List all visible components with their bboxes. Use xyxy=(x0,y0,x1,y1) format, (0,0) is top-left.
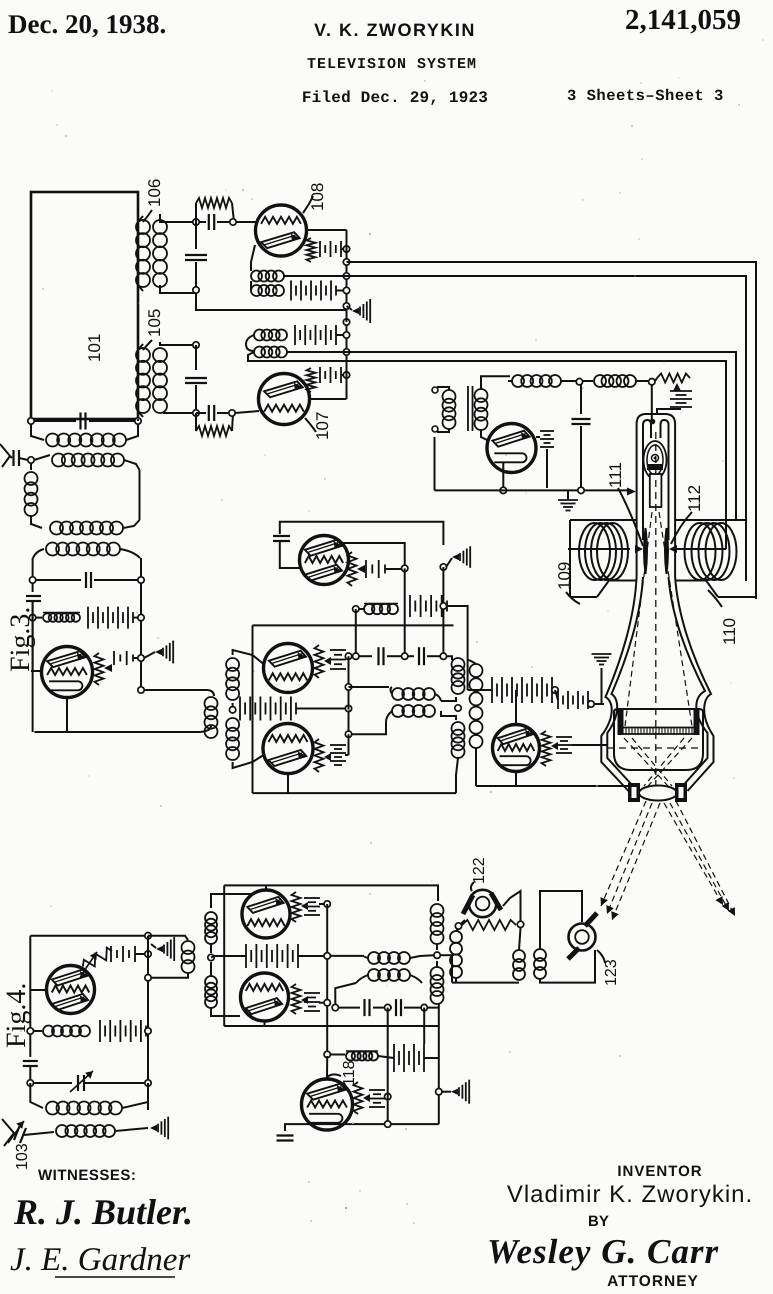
node T3 battery right xyxy=(138,655,144,661)
Te plate resistor xyxy=(292,892,301,922)
label 108 leader xyxy=(303,196,313,213)
node battery B xyxy=(343,287,349,293)
wire mb battery right xyxy=(424,1057,439,1059)
label 107 leader xyxy=(305,418,316,432)
mb output column bottom xyxy=(431,967,444,980)
choke row battery xyxy=(409,595,411,617)
svg-text:111: 111 xyxy=(606,462,625,488)
122 bottom wire xyxy=(456,978,519,983)
rcv grid battery xyxy=(540,430,554,432)
midblock frame xyxy=(253,624,454,626)
wire windings right to column xyxy=(441,697,456,701)
midbottom bias battery xyxy=(211,956,214,958)
Tf arrow xyxy=(301,996,308,1004)
wire 105 primary ends xyxy=(138,344,143,350)
wire Tb batt to node xyxy=(345,655,349,657)
node fig4 primary return xyxy=(145,975,151,981)
mid transformer top winding xyxy=(392,688,404,700)
coupling center tap xyxy=(208,954,214,960)
rcv rail left bend xyxy=(434,437,436,490)
input transformer secondary bottom half xyxy=(226,718,239,731)
crt cathode circle xyxy=(652,455,659,462)
Td cathode down xyxy=(515,772,517,787)
svg-text:109: 109 xyxy=(555,562,574,590)
dashed rays right fan xyxy=(664,803,723,905)
label 118 leader xyxy=(326,1074,341,1078)
node stage2 right top xyxy=(138,577,144,583)
crt gun inner ellipse xyxy=(647,445,663,475)
wire row2-row3 right vertical xyxy=(139,470,141,520)
wire coil A to bus xyxy=(284,275,347,277)
node ground top xyxy=(343,303,349,309)
wire 105 secondary top xyxy=(160,342,196,345)
123 plate upper xyxy=(585,913,597,926)
mb transformer top winding xyxy=(330,955,364,957)
target side support left xyxy=(618,708,624,735)
coupling primary bottom xyxy=(151,973,188,978)
wire Te out xyxy=(319,903,324,905)
fig4 top rail xyxy=(30,935,145,937)
deflection coil 109 xyxy=(579,523,610,580)
crt axis dashed xyxy=(655,432,657,786)
bus wire C xyxy=(287,352,736,520)
svg-text:112: 112 xyxy=(685,485,704,512)
rcv coil row 1 xyxy=(512,375,524,387)
yoke step left xyxy=(597,581,609,598)
tube Tb xyxy=(264,644,313,693)
grid capacitor of 108 xyxy=(208,214,210,230)
node battery 107 xyxy=(343,332,349,338)
mb bottom rail xyxy=(308,1123,439,1125)
Td arrow xyxy=(551,742,558,750)
rcv pot arrow xyxy=(673,383,681,391)
wire bias to gun top xyxy=(657,409,681,414)
rf row4 next stage xyxy=(33,549,44,558)
fig4 series capacitor xyxy=(23,1060,38,1062)
node mb cap row left xyxy=(332,1004,338,1010)
choke row: node left xyxy=(353,606,359,612)
T4 grid wire xyxy=(30,989,46,991)
fig4 ground 2 xyxy=(150,1125,157,1131)
Tb plate resistor xyxy=(315,645,324,678)
mb transformer bottom winding xyxy=(368,969,380,981)
block 101 xyxy=(31,192,138,419)
lens bracket left xyxy=(628,783,640,802)
crt gun crossbar xyxy=(647,464,663,470)
crt bell right outer xyxy=(675,577,713,791)
wire cap row to column xyxy=(427,1004,439,1008)
node winding bottom left xyxy=(345,731,351,737)
mid transformer bottom winding xyxy=(392,705,404,717)
wire yoke left to left plate xyxy=(568,548,630,550)
label 109 leader xyxy=(566,592,580,604)
tank coil row1 xyxy=(31,424,44,440)
output chain battery small xyxy=(557,691,559,709)
crt bell left outer xyxy=(601,577,636,791)
wire bottom winding left xyxy=(356,975,368,983)
tube 107 xyxy=(259,374,310,425)
Tf cathode stub xyxy=(264,1021,266,1026)
svg-text:110: 110 xyxy=(720,618,739,645)
fig4 right vertical xyxy=(147,936,149,1110)
wire T3 output right xyxy=(144,689,208,691)
node mb cap right xyxy=(421,1004,427,1010)
tube T3 detector xyxy=(42,647,93,698)
crt inner chamber xyxy=(614,709,703,770)
coupling transformer secondary top xyxy=(205,912,217,924)
fig4 to midbottom coupling wire xyxy=(148,936,188,940)
yoke frame top left xyxy=(570,519,637,521)
choke coil mid xyxy=(359,608,364,610)
svg-text:Vladimir K. Zworykin.: Vladimir K. Zworykin. xyxy=(507,1181,753,1208)
wire cap to Ta xyxy=(280,541,300,568)
122 right coil xyxy=(519,928,521,950)
node T4 batt xyxy=(145,951,151,957)
fig4 big coil row xyxy=(30,1083,43,1108)
wire to tube 108 xyxy=(236,221,256,223)
svg-text:TELEVISION SYSTEM: TELEVISION SYSTEM xyxy=(307,56,477,73)
fig4 tube T4 xyxy=(47,966,95,1014)
stage2 frame right vertical xyxy=(140,558,142,690)
node rcv cathode xyxy=(500,487,506,493)
118 grid stub xyxy=(326,1056,328,1080)
Td plate resistor xyxy=(542,731,551,766)
node stage2 left top xyxy=(29,577,35,583)
coil row battery 107 xyxy=(254,330,265,341)
T3 plate resistor xyxy=(95,653,104,685)
122 plate left xyxy=(463,895,473,914)
ground below rcv xyxy=(567,490,569,499)
fig4 left vertical xyxy=(29,936,31,1057)
coupling capacitor 107 xyxy=(195,345,197,370)
svg-text:2,141,059: 2,141,059 xyxy=(625,4,741,36)
svg-text:101: 101 xyxy=(85,334,104,362)
grid leak resistor 108 xyxy=(307,238,316,262)
transformer 105 primary winding xyxy=(136,348,150,362)
fig4 variable capacitor row xyxy=(27,1080,33,1086)
antenna 103 arrow xyxy=(8,1121,24,1143)
tube Te xyxy=(242,890,290,938)
node cap branch xyxy=(578,487,584,493)
transformer 106 secondary winding xyxy=(153,220,167,234)
wire grid Tc xyxy=(233,755,264,768)
dashed horizontal in chamber xyxy=(607,747,703,749)
wire Tc batt to vertical xyxy=(345,754,349,756)
feedback coil A 108 xyxy=(251,245,255,271)
node 107 grid left xyxy=(193,410,199,416)
label 123 leader xyxy=(597,950,605,963)
svg-text:Fig.4.: Fig.4. xyxy=(1,983,32,1048)
vertical 424 link xyxy=(423,1008,425,1044)
vertical 348 down xyxy=(348,656,350,734)
svg-text:107: 107 xyxy=(313,412,332,440)
tube 118 xyxy=(302,1079,353,1130)
receiver transformer secondary xyxy=(475,389,488,402)
ground fig3 xyxy=(155,649,162,655)
receiver secondary top to coil row xyxy=(481,376,510,389)
grid resistor of 108 xyxy=(195,203,197,222)
118 cathode capacitor xyxy=(285,1124,308,1131)
photocell 122 xyxy=(469,890,496,917)
label 106 leader xyxy=(143,210,152,222)
123 left coil xyxy=(534,949,546,961)
wire secondary top bend xyxy=(468,660,476,664)
label 111 leader xyxy=(618,488,643,546)
label 105 leader xyxy=(143,340,152,350)
midblock top rail xyxy=(280,522,444,545)
mb choke row xyxy=(324,1051,330,1057)
wire T3 cathode down xyxy=(66,698,68,733)
svg-text:WITNESSES:: WITNESSES: xyxy=(38,1167,136,1184)
left vertical to rail xyxy=(32,615,34,640)
118 plate resistor xyxy=(354,1082,363,1114)
node mb cap mid xyxy=(385,1004,391,1010)
mb cap row c2 xyxy=(391,1007,392,1009)
wire choke row to output transformer xyxy=(447,606,468,660)
battery stage2 xyxy=(87,607,89,629)
interstage primary coil xyxy=(208,690,214,696)
wire node to 122 frame xyxy=(440,954,452,956)
crt gun outer ellipse xyxy=(644,441,667,479)
crt neck inner wall right xyxy=(661,420,669,540)
Te plate stub xyxy=(265,885,267,890)
receiver primary leads xyxy=(437,387,449,390)
fig4 ground 1 xyxy=(151,944,156,948)
wire top winding right xyxy=(410,955,434,958)
cap row c1 xyxy=(359,655,372,657)
tank capacitor xyxy=(34,420,76,422)
122 resistor xyxy=(462,920,516,930)
fig4 coil battery row xyxy=(27,1028,33,1034)
node coil 107 xyxy=(343,349,349,355)
Tc arrow xyxy=(324,753,331,761)
vertical 355 down xyxy=(355,609,357,656)
Te arrow xyxy=(301,902,308,910)
rcv capacitor branch xyxy=(580,384,582,414)
node mb column center xyxy=(434,952,440,958)
rcv center wire to gun xyxy=(651,384,653,421)
target side support right xyxy=(694,708,700,735)
wire to ground fig3 xyxy=(144,652,155,658)
tube Tf xyxy=(241,973,289,1021)
yoke step right xyxy=(706,581,718,598)
Ta arrow xyxy=(357,565,365,573)
node Ta right xyxy=(402,565,408,571)
grid leak resistor 107 xyxy=(307,368,316,392)
tube Td grid stub xyxy=(515,690,517,724)
svg-text:122: 122 xyxy=(471,857,488,884)
bulb bottom wire xyxy=(476,785,629,787)
grid capacitor 107 xyxy=(208,405,210,421)
bus wire B inner xyxy=(347,276,747,581)
node antenna xyxy=(28,457,34,463)
T3 arrow xyxy=(104,664,112,672)
wire cap row to coil column xyxy=(446,656,452,660)
wire bus D to right plate xyxy=(675,548,726,550)
deflection coil 110 xyxy=(685,523,716,580)
node midrail right top xyxy=(440,564,446,570)
frame right to column bottom xyxy=(456,758,458,793)
122 right lead xyxy=(503,891,521,921)
wire to tube 107 xyxy=(235,411,259,413)
wire down to ground rail xyxy=(196,293,345,310)
coupling transformer primary xyxy=(182,941,195,954)
tube Tc xyxy=(263,724,313,774)
node bus A xyxy=(343,259,349,265)
receiver transformer primary xyxy=(443,390,456,403)
Tc plate resistor xyxy=(315,739,324,772)
yoke frame bottom right outer xyxy=(718,596,756,598)
Tb arrow xyxy=(324,657,331,665)
T4 pot arrow xyxy=(82,952,97,974)
Te battery stack xyxy=(304,897,320,899)
svg-text:ATTORNEY: ATTORNEY xyxy=(607,1273,699,1290)
label 110 leader xyxy=(708,590,722,607)
secondary bottom down xyxy=(475,748,477,786)
plate vertical 107 xyxy=(346,322,348,399)
wire Td to bulb xyxy=(572,744,607,746)
vertical 327 down xyxy=(326,904,328,1055)
dashed beam lines in cone xyxy=(625,512,652,726)
wire coil107 to bus D xyxy=(248,352,290,361)
yoke frame bottom right inner xyxy=(675,580,706,582)
svg-text:103: 103 xyxy=(14,1143,31,1170)
tube 108 plate wire right xyxy=(307,229,347,231)
node tank left xyxy=(28,418,34,424)
crt lens xyxy=(639,786,677,801)
deflector plate right xyxy=(665,528,668,574)
Ta cathode resistor xyxy=(348,552,357,586)
node bias 108 xyxy=(343,246,349,252)
node tank right xyxy=(135,418,141,424)
feedback coil 107 xyxy=(246,335,254,351)
node top 107 xyxy=(343,319,349,325)
output transformer secondary xyxy=(470,664,483,677)
input transformer secondary top half xyxy=(226,658,239,671)
node cap row mid xyxy=(402,653,408,659)
123 plate lower xyxy=(568,948,579,959)
yoke frame bottom left inner xyxy=(609,580,637,582)
Tf plate resistor xyxy=(292,984,301,1014)
output chain battery big xyxy=(491,677,493,703)
label 112 leader xyxy=(671,512,692,544)
crt neck inner wall left xyxy=(643,420,651,540)
node cap row right xyxy=(440,653,446,659)
choke coil stage2 xyxy=(35,617,42,619)
rcv cathode lead xyxy=(502,462,504,487)
crt gun cylinder xyxy=(650,474,662,507)
antenna top xyxy=(0,444,10,467)
wire block101 left edge down xyxy=(30,419,32,421)
tube Ta xyxy=(300,536,349,585)
node bulb wall top xyxy=(588,701,594,707)
T4 battery xyxy=(110,946,112,962)
tube 108 xyxy=(256,205,307,256)
node choke right xyxy=(440,603,446,609)
svg-text:Wesley G. Carr: Wesley G. Carr xyxy=(487,1232,719,1271)
output transformer primary top xyxy=(452,658,465,671)
T4 plate wire to pot xyxy=(80,975,87,977)
grid capacitor Ta xyxy=(273,535,290,537)
node bias mid xyxy=(324,953,330,959)
T3 battery xyxy=(113,651,115,665)
photocell 123 xyxy=(569,924,596,951)
122 left coil xyxy=(456,929,459,931)
ground crt left xyxy=(601,668,603,703)
antenna 103 xyxy=(2,1119,14,1146)
103 capacitor xyxy=(14,1125,20,1140)
rcv batt lead down xyxy=(546,449,548,488)
grid resistor 107 xyxy=(195,413,197,431)
vertical coil left xyxy=(30,463,32,470)
wire 105 secondary bottom xyxy=(163,412,193,414)
grid wire Tf xyxy=(211,1008,240,1016)
output transformer primary bottom xyxy=(452,722,465,735)
crt bell left inner xyxy=(607,577,643,785)
Tf battery stack xyxy=(304,992,320,994)
battery B 108 xyxy=(290,281,292,301)
label 122 leader xyxy=(471,882,474,891)
mb output column top xyxy=(431,904,444,917)
node rcv mid xyxy=(576,379,582,385)
node winding top left xyxy=(345,684,351,690)
118 arrow xyxy=(363,1094,370,1102)
receiver transformer core xyxy=(467,386,469,431)
vertical 438 down xyxy=(438,1008,440,1125)
T4 pot resistor xyxy=(80,946,114,971)
svg-text:3 Sheets–Sheet 3: 3 Sheets–Sheet 3 xyxy=(567,87,724,105)
tube Td xyxy=(493,725,540,772)
123 frame xyxy=(540,891,582,949)
wire 106 secondary top to RC xyxy=(160,214,196,222)
Tc cathode to rail xyxy=(287,774,289,794)
midbottom frame xyxy=(224,885,438,901)
cap row c2 xyxy=(408,655,414,657)
fig4 bottom coil xyxy=(56,1125,68,1137)
node ground mb xyxy=(436,1089,442,1095)
rf secondary row2 xyxy=(34,455,50,460)
dashed rays inside chamber xyxy=(624,738,668,786)
vertical 387 down xyxy=(387,1008,389,1125)
tube 107 plate wire right xyxy=(310,398,347,400)
Tc battery stack xyxy=(330,744,346,746)
node output stage2 xyxy=(138,687,144,693)
rf row3 xyxy=(50,522,63,535)
crt target plate xyxy=(622,727,695,729)
cathode coil B 108 xyxy=(250,281,252,291)
svg-text:J. E. Gardner: J. E. Gardner xyxy=(10,1242,190,1278)
node Tb out xyxy=(345,653,351,659)
wire Ta battery to node xyxy=(385,568,402,570)
antenna capacitor xyxy=(12,450,14,466)
wire grid T3 left xyxy=(32,601,34,671)
Ta plate top wire xyxy=(340,543,405,565)
center tap node xyxy=(229,707,235,713)
grid wire Te xyxy=(211,894,255,908)
svg-text:V. K. ZWORYKIN: V. K. ZWORYKIN xyxy=(314,20,476,40)
arrow to left plate xyxy=(635,545,643,553)
node bias 107 xyxy=(343,372,349,378)
svg-text:105: 105 xyxy=(145,309,164,337)
scan noise xyxy=(251,198,253,200)
push-pull bias battery xyxy=(232,703,234,707)
vertical 443 down xyxy=(442,567,444,656)
node grid RC 107 top xyxy=(193,342,199,348)
mb big battery xyxy=(393,1044,395,1072)
node below cap xyxy=(193,287,199,293)
Tb battery stack xyxy=(330,649,346,651)
vertical 404 down xyxy=(404,568,406,654)
